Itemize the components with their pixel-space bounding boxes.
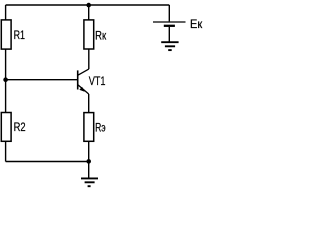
collector diagonal [78,69,89,75]
battery plus plate [153,21,186,23]
resistor Rk [84,20,94,49]
resistor Re [84,113,94,142]
wire collector lead [88,49,90,69]
battery minus plate [164,25,175,27]
ground bottom [81,178,98,186]
wire bottom rail [6,161,89,163]
wire emitter lead [88,94,90,113]
wire left rail middle (R1 to R2 through base node) [5,49,7,113]
node base junction [3,77,8,82]
node bottom junction [86,159,91,164]
svg-text:Rк: Rк [95,28,107,42]
resistor R2 [1,113,11,142]
wire Rk top lead [88,5,90,20]
transistor VT1 [78,69,89,94]
battery Ek [153,22,186,26]
wire top rail [6,4,170,6]
ground battery [161,42,178,50]
wire Re bottom lead to ground [88,141,90,178]
wire left rail upper (top to R1) [5,5,7,20]
base bar [77,70,79,89]
wire battery top lead [168,5,170,21]
wire left rail lower (R2 down to bottom corner) [5,141,7,161]
svg-text:Rэ: Rэ [95,120,106,134]
wire base lead [6,79,78,81]
node top junction [86,3,91,8]
svg-text:Eк: Eк [190,17,203,31]
svg-text:R2: R2 [14,120,26,134]
wire battery bottom lead to ground [168,27,170,42]
emitter arrowhead [80,87,85,91]
svg-text:VT1: VT1 [89,74,106,88]
resistor R1 [1,20,11,49]
emitter diagonal [78,85,89,94]
svg-text:R1: R1 [14,28,26,42]
